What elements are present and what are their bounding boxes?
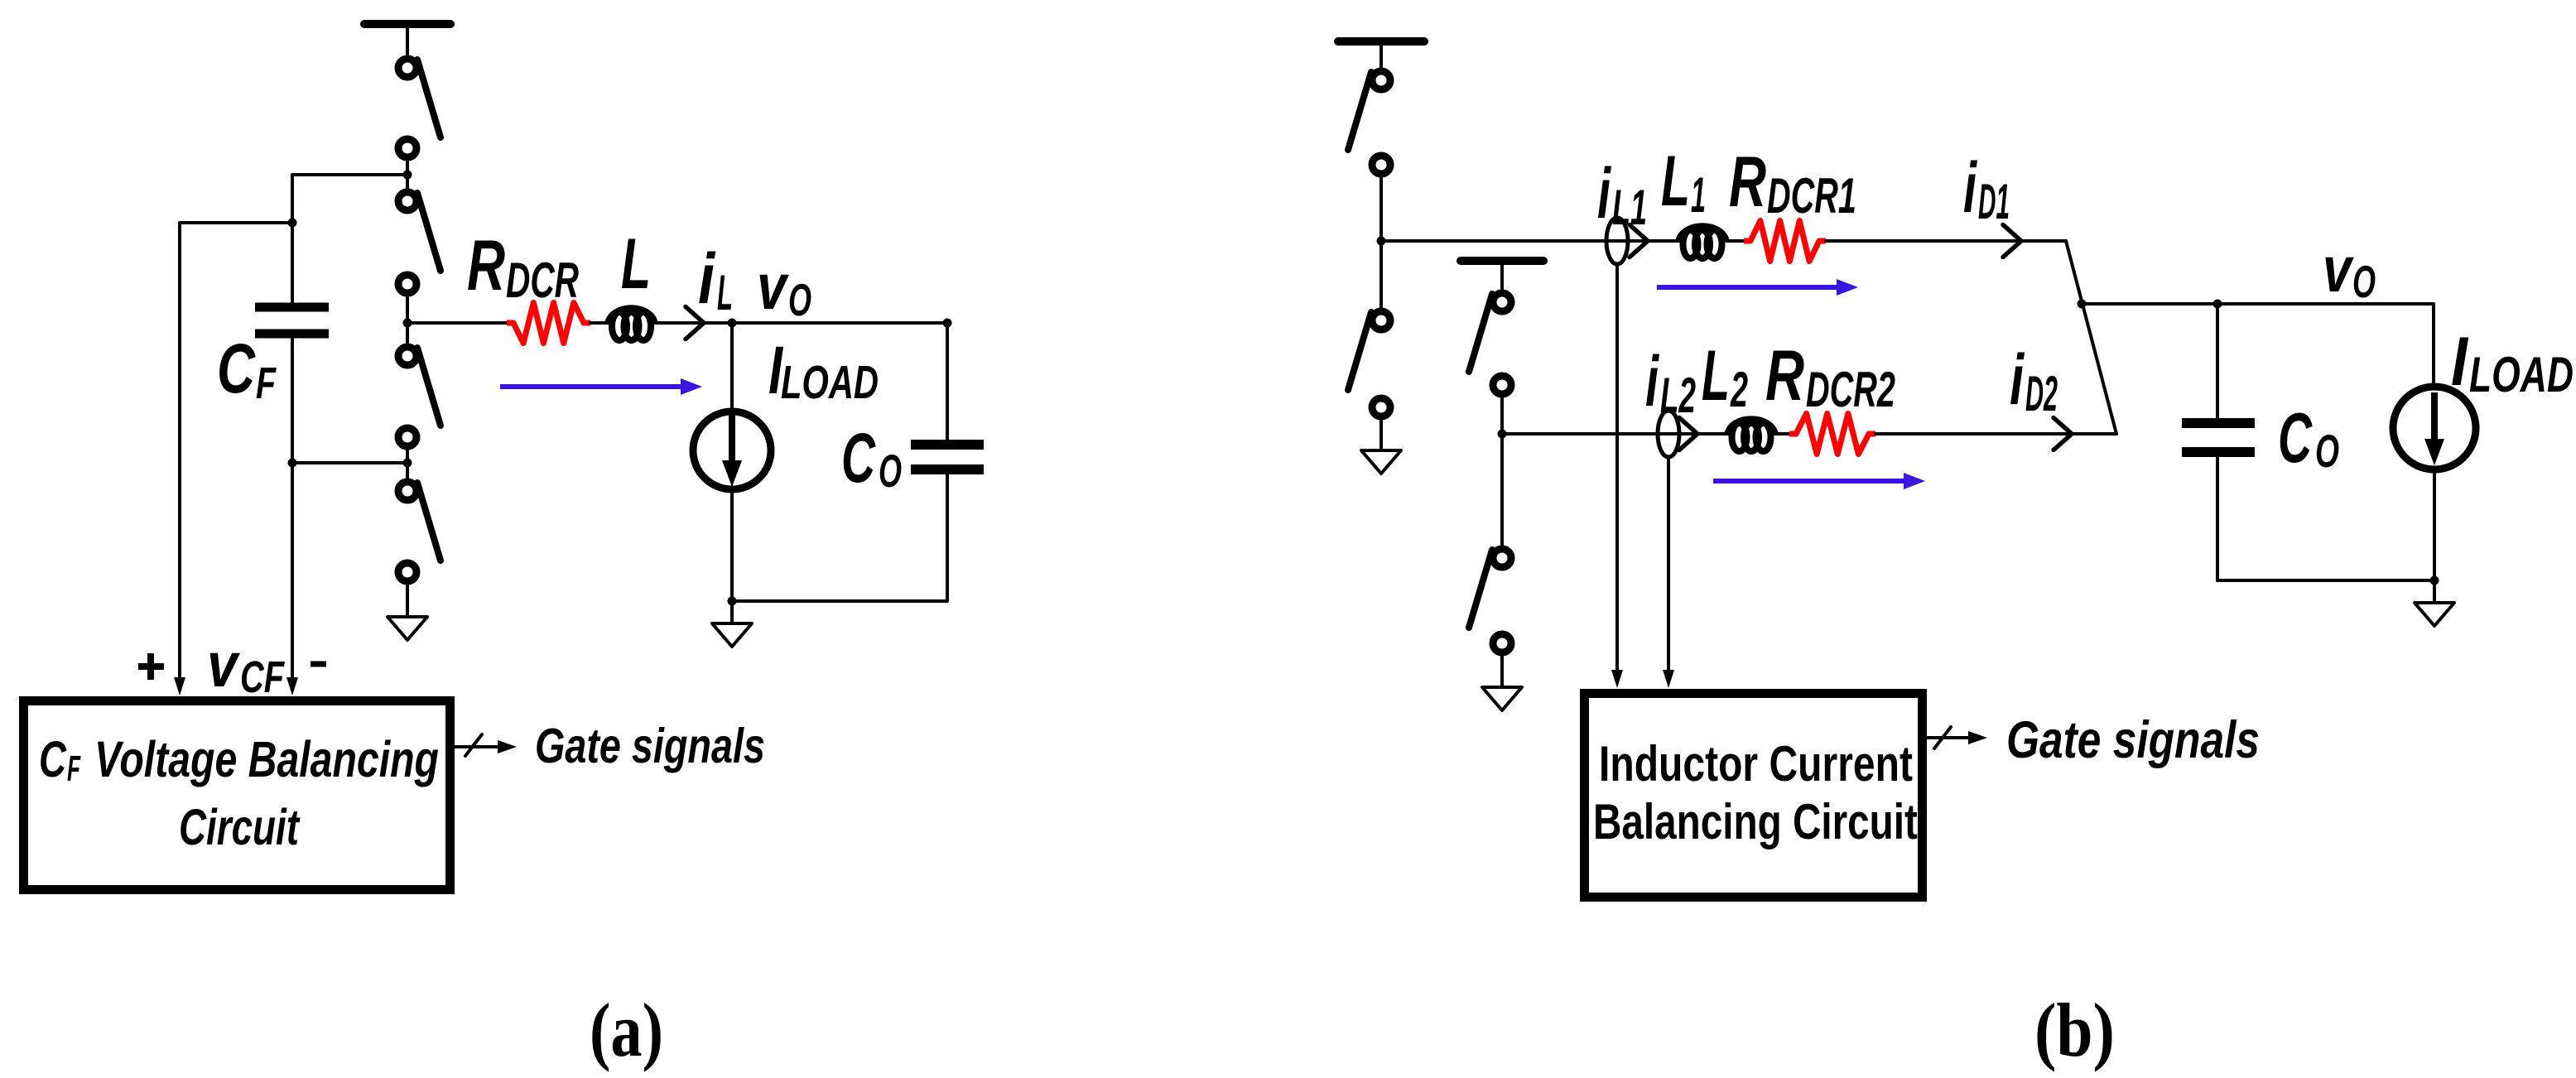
ground branch2 (b) [1482, 687, 1522, 710]
svg-text:i: i [1597, 153, 1611, 233]
svg-text:O: O [879, 445, 902, 497]
svg-text:L2: L2 [1660, 368, 1696, 423]
svg-text:DCR: DCR [506, 253, 579, 308]
inductor L [608, 308, 655, 340]
junction bottom (a) [728, 597, 737, 606]
svg-text:2: 2 [1730, 362, 1748, 417]
inductor L2 [1727, 419, 1775, 451]
svg-text:Voltage Balancing: Voltage Balancing [94, 731, 439, 788]
label iL1 [1597, 153, 1647, 235]
inductor current balancing circuit box [1585, 694, 1923, 898]
wire node A to CF top [292, 173, 407, 176]
current probe ellipse iL2 [1658, 411, 1679, 457]
wire L2 to RDCR2 [1775, 432, 1791, 436]
gate signals arrow (a) [455, 734, 517, 756]
svg-text:Gate signals: Gate signals [2006, 711, 2260, 769]
label RDCR [467, 226, 579, 308]
wire S1-S2 [406, 161, 409, 189]
svg-text:F: F [256, 359, 277, 409]
wire S8 to ground [1500, 656, 1504, 687]
power rail bar 1 (b) [1338, 37, 1424, 46]
wire S6 to ground [1379, 420, 1383, 450]
switch S2 (a) [398, 192, 441, 293]
wire node B to CF bottom [292, 461, 407, 464]
svg-text:L: L [1702, 336, 1730, 416]
svg-text:v: v [757, 251, 790, 323]
svg-text:L: L [621, 224, 651, 304]
svg-text:R: R [1729, 142, 1766, 221]
svg-text:F: F [67, 748, 81, 789]
svg-text:i: i [2010, 339, 2025, 420]
wire S2-S3 through output node [406, 296, 409, 344]
label plus [138, 653, 164, 680]
junction output node (a) [403, 319, 412, 328]
junction node B [403, 459, 412, 468]
bottom wire (a) [732, 599, 947, 603]
label ILOAD (a) [768, 333, 879, 408]
label CO (b) [2278, 400, 2339, 478]
iL chevron [686, 307, 704, 339]
junction node A [403, 171, 412, 180]
ground switch chain (a) [388, 617, 427, 640]
wire S7-S8 through node D [1500, 397, 1504, 546]
svg-text:R: R [467, 226, 505, 306]
ground output (b) [2415, 580, 2454, 626]
junction CO top (a) [943, 319, 952, 328]
wire CF plus tap [180, 221, 292, 224]
sense wire - into box [286, 463, 298, 695]
resistor RDCR1 [1744, 221, 1826, 262]
label RDCR1 [1729, 142, 1856, 224]
inductor L1 [1678, 226, 1726, 258]
svg-text:i: i [698, 238, 716, 319]
wire CF bottom [291, 338, 294, 463]
junction node D [1498, 430, 1507, 439]
junction merge node vO (b) [2078, 300, 2087, 309]
label vO (a) [757, 251, 811, 325]
label iD2 [2010, 339, 2058, 422]
wire S3-S4 [406, 450, 409, 479]
current probe ellipse iL1 [1606, 218, 1628, 264]
current source ILOAD (a) [693, 323, 771, 601]
label L2 [1702, 336, 1748, 417]
svg-text:(b): (b) [2034, 988, 2115, 1073]
wire RDCR1 to merge corner [1826, 239, 2066, 243]
svg-text:R: R [1765, 336, 1804, 416]
junction CF plus tap [288, 219, 297, 228]
ground output (a) [712, 601, 752, 647]
svg-text:O: O [2352, 256, 2376, 307]
junction node C [1377, 237, 1386, 246]
power rail bar 2 (b) [1461, 257, 1543, 265]
label iL [698, 238, 733, 321]
resistor RDCR [507, 303, 590, 344]
power rail bar (a) [364, 20, 450, 28]
switch S7 (b) [1469, 293, 1511, 394]
resistor RDCR2 [1789, 414, 1875, 455]
svg-text:(a): (a) [590, 989, 663, 1072]
wire rail to S1 [406, 24, 409, 56]
svg-text:Circuit: Circuit [179, 800, 301, 856]
svg-text:1: 1 [1691, 167, 1706, 223]
svg-text:L: L [717, 266, 733, 321]
wire S5-S6 through node C [1379, 177, 1383, 308]
capacitor CO (a) [911, 323, 984, 601]
wire resistor to inductor [590, 321, 609, 325]
wire inductor to node vO [655, 321, 947, 325]
switch S6 (b) [1348, 311, 1390, 416]
sense wire iL2 to box [1663, 457, 1674, 688]
iL2 chevron [1679, 418, 1697, 450]
switch S5 (b) [1348, 71, 1390, 174]
label L1 [1661, 142, 1706, 224]
wire S4 to ground [406, 585, 409, 617]
sense wire + into box [174, 223, 185, 695]
label CF [217, 330, 277, 409]
svg-text:v: v [2323, 234, 2354, 306]
wire rail2 to S7 [1500, 261, 1504, 291]
label iD1 [1963, 147, 2010, 229]
svg-text:L1: L1 [1612, 180, 1647, 236]
svg-text:C: C [841, 420, 876, 498]
switch S3 (a) [398, 347, 441, 446]
label vCF [207, 630, 285, 703]
svg-text:D1: D1 [1978, 175, 2010, 230]
wire branch2 row [1502, 432, 1729, 436]
svg-text:O: O [2315, 426, 2339, 478]
svg-text:Gate signals: Gate signals [535, 719, 765, 773]
svg-text:Balancing Circuit: Balancing Circuit [1593, 795, 1918, 849]
sense wire iL1 to box [1611, 264, 1623, 688]
box text line1 (a) [39, 731, 439, 789]
label vO (b) [2323, 234, 2376, 307]
blue current arrow iL (a) [500, 378, 702, 395]
junction CO tap (b) [2213, 300, 2222, 309]
svg-text:D2: D2 [2025, 367, 2058, 422]
merge slant wire [2066, 241, 2116, 434]
CF voltage balancing circuit box [24, 701, 450, 890]
label minus [311, 662, 326, 667]
junction bottom (b) [2430, 576, 2439, 585]
blue current arrow iL1 [1657, 279, 1858, 296]
capacitor CO (b) [2182, 304, 2255, 580]
wire CF top [291, 175, 294, 303]
iD2 chevron [2054, 418, 2072, 450]
label RDCR2 [1765, 336, 1895, 417]
capacitor CF [255, 307, 329, 334]
current source ILOAD (b) [2393, 304, 2476, 580]
iL1 chevron [1630, 225, 1648, 257]
gate signals arrow (b) [1927, 727, 1987, 748]
svg-text:I: I [2451, 322, 2469, 401]
svg-text:CF: CF [240, 652, 285, 702]
wire branch1 row [1381, 239, 1680, 243]
ground branch1 (b) [1361, 450, 1401, 474]
junction CF minus tap [288, 459, 297, 468]
iD1 chevron [2003, 225, 2021, 257]
switch S1 (a) [398, 59, 441, 157]
switch S8 (b) [1469, 549, 1511, 652]
junction node vO (a) [728, 319, 737, 328]
svg-text:DCR2: DCR2 [1806, 362, 1895, 417]
wire RDCR2 to merge corner [1875, 432, 2116, 436]
svg-text:C: C [217, 330, 256, 408]
svg-text:L: L [1661, 142, 1690, 221]
svg-text:C: C [2278, 400, 2313, 478]
svg-text:i: i [1645, 341, 1659, 421]
switch S4 (a) [398, 482, 441, 581]
output wire vO row (b) [2082, 302, 2433, 306]
svg-text:v: v [207, 630, 240, 700]
label iL2 [1645, 341, 1696, 423]
svg-text:LOAD: LOAD [2469, 348, 2574, 403]
label CO (a) [841, 420, 902, 498]
wire output node to resistor [407, 321, 508, 325]
svg-text:LOAD: LOAD [781, 356, 879, 409]
svg-text:C: C [39, 732, 67, 788]
svg-text:Inductor Current: Inductor Current [1599, 736, 1913, 792]
blue current arrow iL2 [1713, 473, 1925, 489]
bottom wire (b) [2217, 579, 2434, 582]
wire rail1 to S5 [1379, 41, 1383, 69]
wire L1 to RDCR1 [1726, 239, 1745, 243]
svg-text:DCR1: DCR1 [1767, 168, 1856, 224]
svg-text:O: O [788, 274, 811, 325]
label ILOAD (b) [2451, 322, 2574, 403]
svg-text:i: i [1963, 147, 1977, 227]
